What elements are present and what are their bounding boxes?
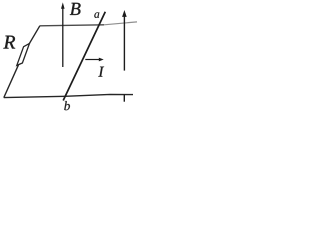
top rail (left dark part) xyxy=(40,25,104,26)
label B xyxy=(70,3,81,15)
B field arrow right lower tick through plane xyxy=(123,94,125,101)
B field arrow right (shaft) xyxy=(123,13,125,71)
wire: resistor to bottom-left corner xyxy=(4,65,19,98)
label R xyxy=(3,36,15,49)
resistor R xyxy=(17,43,30,65)
bottom rail xyxy=(4,94,133,97)
B field arrow left (shaft) xyxy=(62,6,64,67)
B field arrow left (head) xyxy=(61,2,65,8)
wire: top-left corner to resistor xyxy=(29,26,40,44)
label a xyxy=(94,12,99,17)
rod ab xyxy=(63,12,105,101)
current I arrow (shaft) xyxy=(85,59,99,61)
B field arrow right (head) xyxy=(122,10,127,17)
label I xyxy=(98,67,104,77)
label b xyxy=(64,101,70,110)
current I arrow (head) xyxy=(99,58,104,62)
top rail (right faint part) xyxy=(104,22,137,25)
